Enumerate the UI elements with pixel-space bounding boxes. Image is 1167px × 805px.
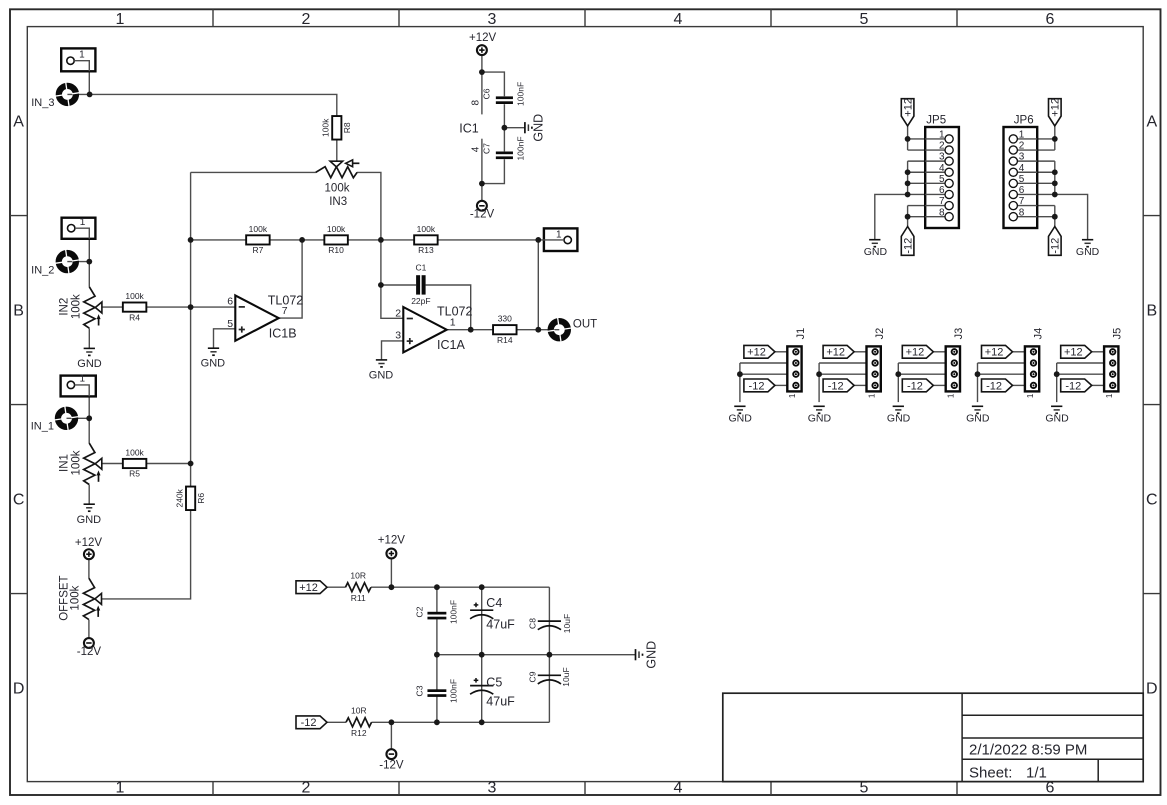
wire (907, 126, 909, 150)
svg-text:2: 2 (395, 307, 401, 319)
supply flag +12 (J2) (823, 345, 854, 358)
svg-text:1: 1 (556, 229, 562, 240)
wire (740, 373, 787, 375)
wire (357, 172, 403, 318)
wire (75, 385, 90, 397)
wire (907, 206, 909, 227)
svg-text:10R: 10R (351, 706, 367, 716)
svg-text:GND: GND (864, 246, 888, 258)
pad OUT (547, 318, 571, 342)
wire (438, 239, 564, 241)
svg-text:C4: C4 (486, 596, 502, 610)
wire (481, 587, 483, 655)
wire (436, 587, 438, 612)
junction (905, 180, 911, 186)
svg-text:10R: 10R (350, 571, 366, 581)
svg-text:100k: 100k (327, 224, 346, 234)
svg-text:C2: C2 (414, 606, 424, 617)
svg-text:C3: C3 (414, 685, 424, 696)
svg-text:R5: R5 (129, 469, 140, 479)
wire (517, 329, 560, 331)
pad IN_1 (54, 406, 78, 430)
ground (77, 348, 102, 370)
svg-text:R10: R10 (328, 245, 344, 255)
ground (808, 406, 832, 424)
wire (327, 586, 345, 588)
wire (67, 417, 90, 419)
svg-text:1/1: 1/1 (1026, 765, 1047, 782)
junction (389, 584, 395, 590)
svg-text:C6: C6 (482, 88, 492, 99)
svg-text:R8: R8 (342, 122, 352, 133)
potentiometer IN1 pot (59, 443, 102, 484)
svg-text:JP6: JP6 (1014, 115, 1034, 127)
potentiometer IN2 pot (59, 287, 102, 328)
junction (434, 584, 440, 590)
svg-text:-12: -12 (1050, 238, 1062, 254)
svg-text:7: 7 (1019, 196, 1025, 207)
svg-text:R14: R14 (497, 335, 513, 345)
connector JP6 (1004, 115, 1038, 228)
wire (1091, 351, 1104, 353)
svg-text:1: 1 (116, 11, 125, 28)
svg-text:C: C (13, 492, 25, 509)
supply flag +12 (JP6) (1049, 98, 1062, 126)
svg-text:5: 5 (860, 11, 869, 28)
svg-text:100k: 100k (70, 294, 82, 319)
wire (1012, 384, 1025, 386)
label C5 (486, 675, 515, 708)
svg-text:R4: R4 (129, 312, 140, 322)
wire (908, 160, 926, 162)
junction (1052, 214, 1058, 220)
svg-text:GND: GND (966, 412, 990, 424)
svg-text:4: 4 (470, 146, 481, 152)
resistor R13 (414, 224, 438, 255)
wire (146, 306, 235, 308)
pad IN_2 (55, 249, 79, 273)
svg-text:8: 8 (470, 99, 481, 105)
junction (479, 719, 485, 725)
wire (327, 721, 346, 723)
wire (1037, 193, 1055, 195)
wire (436, 619, 438, 655)
svg-text:+12: +12 (826, 347, 845, 359)
wire (381, 284, 416, 286)
svg-text:100nF: 100nF (516, 136, 526, 160)
wire (819, 362, 866, 364)
svg-text:GND: GND (77, 358, 102, 370)
svg-text:B: B (13, 303, 24, 320)
svg-text:240k: 240k (174, 488, 184, 507)
wire (978, 362, 1025, 364)
wire (819, 373, 866, 375)
svg-text:10uF: 10uF (562, 614, 572, 633)
capacitor C5 (470, 678, 493, 694)
svg-text:GND: GND (808, 412, 832, 424)
svg-text:6: 6 (227, 296, 233, 308)
junction (479, 181, 485, 187)
svg-text:4: 4 (674, 780, 683, 797)
ground (525, 114, 546, 142)
svg-text:A: A (1146, 114, 1157, 131)
svg-text:IN_1: IN_1 (31, 420, 54, 432)
svg-text:100k: 100k (321, 118, 331, 137)
wire (437, 654, 636, 656)
connector J1 (787, 328, 806, 398)
svg-text:5: 5 (939, 174, 945, 185)
ground (887, 406, 911, 424)
ground (636, 641, 659, 669)
power symbol +12V (469, 32, 497, 55)
svg-text:-12V: -12V (77, 646, 102, 658)
junction (905, 169, 911, 175)
junction (479, 69, 485, 75)
potentiometer IN3 (316, 160, 360, 208)
wire (1054, 126, 1056, 150)
svg-text:OUT: OUT (573, 318, 597, 330)
svg-text:C1: C1 (415, 263, 426, 273)
junction (737, 371, 743, 377)
wire (482, 72, 505, 96)
svg-text:2: 2 (302, 780, 311, 797)
wire (1037, 149, 1055, 151)
svg-text:3: 3 (1019, 152, 1025, 163)
svg-text:+12: +12 (906, 347, 925, 359)
svg-text:GND: GND (369, 370, 394, 382)
supply flag +12 (JP5) (901, 98, 914, 126)
svg-text:100k: 100k (249, 224, 268, 234)
capacitor C3 (414, 679, 458, 703)
junction (434, 719, 440, 725)
svg-text:-12: -12 (907, 380, 923, 392)
junction (502, 125, 508, 131)
svg-text:J3: J3 (953, 328, 965, 340)
wire (481, 655, 483, 723)
wire (382, 341, 404, 360)
svg-text:8: 8 (939, 207, 945, 218)
svg-text:+12: +12 (902, 98, 914, 117)
junction (87, 92, 93, 98)
svg-text:GND: GND (1045, 412, 1069, 424)
supply flag -12 (J4) (982, 379, 1013, 392)
junction (299, 237, 305, 243)
power symbol +12V (378, 534, 406, 558)
svg-text:22pF: 22pF (411, 296, 430, 306)
svg-text:IC1A: IC1A (437, 338, 465, 352)
svg-text:TL072: TL072 (268, 294, 303, 308)
svg-text:-12: -12 (301, 717, 317, 729)
svg-text:6: 6 (1046, 11, 1055, 28)
svg-text:+12V: +12V (378, 534, 406, 546)
connector JP5 (925, 115, 959, 228)
svg-text:R11: R11 (351, 593, 366, 603)
power symbol -12V (470, 201, 495, 220)
svg-text:1: 1 (947, 393, 956, 398)
svg-text:330: 330 (498, 314, 512, 324)
wire (908, 138, 926, 140)
capacitor C7 (482, 136, 526, 160)
title block (723, 693, 1143, 781)
junction (378, 282, 384, 288)
supply flag -12 (JP5) (901, 227, 914, 256)
resistor R11 (345, 571, 371, 603)
wire (908, 171, 926, 173)
svg-text:7: 7 (939, 196, 945, 207)
capacitor C9 (538, 675, 561, 684)
svg-text:10uF: 10uF (561, 667, 571, 686)
svg-text:D: D (13, 681, 25, 698)
ground (864, 240, 888, 259)
wire (97, 510, 191, 599)
svg-text:J2: J2 (874, 328, 886, 340)
supply flag -12 (J5) (1061, 379, 1092, 392)
svg-text:2: 2 (1019, 141, 1025, 152)
svg-text:1: 1 (939, 130, 945, 141)
wire (1037, 216, 1055, 218)
junction (479, 652, 485, 658)
svg-text:C: C (1146, 492, 1158, 509)
svg-text:100nF: 100nF (449, 600, 459, 624)
wire (898, 362, 945, 364)
svg-text:100k: 100k (325, 183, 350, 195)
connector J3 (946, 328, 965, 398)
svg-text:GND: GND (644, 641, 658, 669)
wire (897, 363, 899, 402)
svg-text:C8: C8 (527, 618, 537, 629)
wire (854, 384, 867, 386)
ground (966, 406, 990, 424)
wire (537, 240, 539, 330)
wire (481, 55, 483, 115)
resistor R12 (346, 706, 372, 738)
resistor R14 (493, 314, 517, 345)
junction (188, 461, 194, 467)
power symbol -12V (77, 638, 102, 658)
supply flag +12 (J1) (744, 345, 775, 358)
svg-text:3: 3 (395, 330, 401, 342)
svg-text:100nF: 100nF (516, 82, 526, 106)
junction (389, 719, 395, 725)
svg-text:100k: 100k (70, 450, 82, 475)
svg-text:8: 8 (1019, 207, 1025, 218)
junction (905, 136, 911, 142)
wire (1037, 160, 1055, 162)
wire (88, 620, 90, 639)
svg-text:Sheet:: Sheet: (969, 765, 1012, 782)
wire (503, 104, 505, 151)
resistor R6 (174, 487, 206, 511)
resistor R5 (123, 448, 147, 479)
svg-text:C7: C7 (482, 143, 492, 154)
wire (482, 159, 505, 183)
wire (336, 140, 338, 162)
svg-text:100k: 100k (70, 585, 82, 610)
svg-text:A: A (13, 114, 24, 131)
power symbol -12V (379, 749, 404, 771)
wire (774, 384, 787, 386)
capacitor C6 (482, 82, 526, 106)
svg-text:JP5: JP5 (926, 115, 946, 127)
wire (390, 558, 392, 587)
wire (95, 306, 123, 308)
wire (270, 239, 324, 241)
junction (1052, 180, 1058, 186)
svg-text:OFFSET: OFFSET (58, 575, 70, 620)
wire (390, 722, 392, 749)
supply flag +12 (J3) (902, 345, 933, 358)
svg-text:1: 1 (80, 217, 86, 228)
svg-text:+12: +12 (985, 347, 1004, 359)
wire (67, 93, 89, 95)
wire (1054, 206, 1056, 227)
junction (86, 259, 92, 265)
junction (188, 304, 194, 310)
connector J5 (1104, 328, 1123, 398)
wire (1037, 205, 1055, 207)
wire (95, 463, 123, 465)
svg-text:GND: GND (887, 412, 911, 424)
svg-text:IC1B: IC1B (269, 327, 297, 341)
wire (74, 61, 89, 72)
supply flag -12 (J2) (823, 379, 854, 392)
supply flag +12 (R11) (296, 581, 327, 594)
label C4 (486, 596, 515, 631)
wire (908, 182, 926, 184)
svg-text:+12V: +12V (469, 32, 497, 44)
svg-text:B: B (1146, 303, 1157, 320)
junction (468, 327, 474, 333)
svg-text:IC1: IC1 (459, 121, 479, 135)
svg-text:-12: -12 (1065, 380, 1081, 392)
wire (75, 228, 89, 239)
junction (547, 652, 553, 658)
wire (1012, 351, 1025, 353)
resistor R4 (123, 291, 147, 322)
power symbol +12V (75, 537, 103, 559)
wire (907, 161, 909, 194)
wire (933, 351, 946, 353)
wire (481, 139, 483, 201)
junction (905, 214, 911, 220)
connector IN_1 header (61, 374, 96, 397)
junction (975, 371, 981, 377)
op-amp IC1A (395, 305, 472, 353)
wire (933, 384, 946, 386)
svg-text:C9: C9 (527, 671, 537, 682)
wire (88, 418, 90, 443)
op-amp IC1B (227, 294, 303, 341)
svg-text:1: 1 (80, 374, 86, 385)
wire (1037, 138, 1055, 140)
svg-text:J5: J5 (1112, 328, 1124, 340)
svg-text:GND: GND (77, 514, 102, 526)
connector OUT header (544, 228, 578, 251)
supply flag -12 (JP6) (1049, 227, 1062, 256)
wire (88, 559, 90, 578)
wire (191, 171, 316, 173)
label C9 (527, 667, 571, 686)
wire (548, 587, 550, 655)
svg-text:-12: -12 (902, 238, 914, 254)
svg-text:-12: -12 (828, 380, 844, 392)
wire (372, 721, 392, 723)
ground (729, 406, 753, 424)
svg-text:100nF: 100nF (449, 679, 459, 703)
svg-text:100k: 100k (417, 224, 436, 234)
wire (191, 239, 247, 241)
wire (898, 373, 945, 375)
capacitor C8 (538, 621, 561, 630)
svg-text:1: 1 (116, 780, 125, 797)
junction (535, 327, 541, 333)
junction (1052, 169, 1058, 175)
junction (535, 237, 541, 243)
capacitor C1 (411, 263, 430, 306)
svg-text:5: 5 (1019, 174, 1025, 185)
ground (201, 348, 226, 370)
junction (378, 237, 384, 243)
junction (434, 652, 440, 658)
wire (88, 328, 90, 348)
connector J2 (867, 328, 886, 398)
wire (1056, 363, 1058, 402)
wire (1057, 373, 1104, 375)
wire (67, 261, 89, 263)
wire (875, 194, 908, 239)
wire (977, 363, 979, 402)
svg-text:-12V: -12V (470, 208, 495, 220)
capacitor C2 (414, 600, 458, 624)
svg-text:GND: GND (201, 358, 226, 370)
capacitor C4 (470, 603, 493, 619)
wire (854, 351, 867, 353)
ground (1045, 406, 1069, 424)
wire (740, 362, 787, 364)
wire (908, 149, 926, 151)
resistor R7 (246, 224, 270, 255)
svg-text:J4: J4 (1032, 328, 1044, 340)
svg-text:1: 1 (1026, 393, 1035, 398)
svg-text:6: 6 (939, 185, 945, 196)
svg-text:+12V: +12V (75, 537, 103, 549)
svg-text:J1: J1 (795, 328, 807, 340)
svg-text:TL072: TL072 (437, 305, 472, 319)
wire (75, 385, 90, 418)
wire (446, 329, 493, 331)
IC1 power pins (459, 99, 481, 152)
svg-text:GND: GND (729, 412, 753, 424)
label C8 (527, 614, 572, 633)
wire (426, 285, 471, 330)
supply flag -12 (R12) (296, 716, 327, 729)
wire (75, 228, 89, 261)
resistor R10 (324, 224, 348, 255)
wire (1037, 171, 1055, 173)
wire (74, 61, 89, 95)
connector IN_2 header (62, 217, 96, 239)
svg-text:IN_2: IN_2 (31, 264, 54, 276)
wire (90, 94, 337, 116)
svg-text:1: 1 (867, 393, 876, 398)
svg-text:3: 3 (488, 780, 497, 797)
svg-text:R13: R13 (418, 245, 434, 255)
wire (908, 205, 926, 207)
wire (348, 239, 414, 241)
wire (214, 329, 236, 348)
svg-text:+12: +12 (747, 347, 766, 359)
resistor R8 (321, 116, 353, 140)
